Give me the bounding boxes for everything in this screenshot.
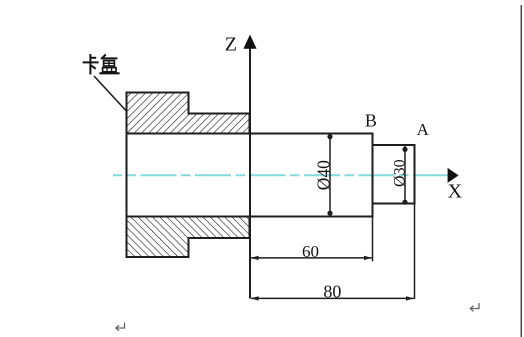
svg-text:Ø30: Ø30 bbox=[391, 159, 408, 187]
workpiece body Ø40 section bbox=[127, 134, 373, 217]
svg-text:B: B bbox=[365, 111, 377, 131]
paragraph return mark bottom-right bbox=[470, 303, 479, 311]
chuck bottom jaw (hatched) bbox=[127, 217, 250, 258]
Z axis line bbox=[249, 48, 251, 299]
extension line at x=372.5 (below 60 dim) bbox=[372, 217, 374, 261]
Z axis arrowhead bbox=[243, 35, 256, 49]
卡 bbox=[89, 54, 91, 75]
dimension 60 line bbox=[251, 256, 372, 260]
svg-text:A: A bbox=[417, 120, 430, 139]
dimension Ø40 line bbox=[327, 134, 332, 216]
X axis arrowhead bbox=[448, 168, 459, 183]
盘 bbox=[102, 55, 106, 59]
right page border bbox=[520, 5, 522, 337]
svg-text:X: X bbox=[448, 180, 463, 202]
chuck label text 卡盘 (drawn strokes) bbox=[83, 54, 120, 75]
extension line at x=414.5 (down to 80 dim) bbox=[414, 204, 416, 299]
workpiece Ø30 section bbox=[373, 145, 415, 204]
centerline X axis (cyan dash-dot) bbox=[113, 174, 449, 176]
dimension Ø30 line bbox=[402, 146, 407, 205]
svg-text:Z: Z bbox=[225, 34, 237, 56]
chuck top jaw (hatched) bbox=[127, 93, 250, 134]
dimension 80 line bbox=[251, 296, 414, 300]
chuck label leader line bbox=[94, 76, 127, 112]
svg-text:80: 80 bbox=[323, 282, 341, 302]
paragraph return mark bottom-left bbox=[116, 323, 125, 331]
svg-text:Ø40: Ø40 bbox=[313, 160, 333, 190]
svg-text:60: 60 bbox=[302, 242, 319, 261]
